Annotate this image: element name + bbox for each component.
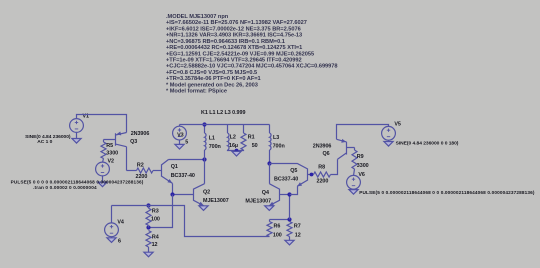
svg-text:R1: R1: [248, 134, 255, 140]
svg-text:V6: V6: [358, 172, 365, 178]
ground under Q2 emitter: [199, 206, 208, 211]
resistor R9: [352, 150, 357, 169]
svg-text:* Model generated on Dec 26, 2: * Model generated on Dec 26, 2003: [166, 82, 258, 88]
svg-text:R6: R6: [274, 224, 281, 230]
junction Q5 base / R8: [310, 173, 314, 177]
ground under V6: [349, 190, 358, 195]
svg-text:3300: 3300: [357, 163, 369, 169]
svg-text:V4: V4: [117, 219, 124, 225]
resistor R2: [137, 168, 154, 173]
wire V5 to ground: [388, 140, 390, 142]
svg-text:MJE13007: MJE13007: [245, 198, 271, 204]
svg-text:SINE(0 4.84 236000): SINE(0 4.84 236000): [25, 134, 71, 140]
wire V3 to ground: [179, 140, 181, 145]
inductor L2: [228, 133, 230, 150]
wire V4 stub: [111, 206, 113, 224]
transistor Q2 MJE13007 (NPN): [194, 184, 205, 208]
transistor Q3 2N3906 (PNP): [104, 131, 127, 146]
junction rail / V3 / L1: [202, 122, 206, 126]
wire Q1 collector to node A: [169, 159, 205, 161]
wire Q5 emitter to node D: [290, 186, 298, 194]
wire bias rail to R6: [149, 206, 270, 237]
svg-text:+IKF=6.6012 ISE=7.00002e-12 NE: +IKF=6.6012 ISE=7.00002e-12 NE=3.375 BR=…: [166, 26, 301, 32]
spice .MODEL MJE13007 text block: [166, 14, 338, 95]
resistor R4: [146, 231, 151, 248]
wire Q3 collector to R2 left: [127, 170, 137, 172]
svg-text:L2: L2: [230, 134, 236, 140]
node A junction: [202, 157, 206, 161]
svg-text:R5: R5: [106, 143, 113, 149]
node C junction: [170, 192, 174, 196]
svg-text:2200: 2200: [317, 178, 329, 184]
junction L2/R1/ground: [235, 149, 239, 153]
svg-text:2N3906: 2N3906: [131, 131, 150, 137]
wire Q4 base to node D: [280, 194, 290, 196]
svg-text:PULSE(5 0 0.000002118644068 0: PULSE(5 0 0.000002118644068 0 0 0.000002…: [359, 190, 535, 195]
svg-text:12: 12: [295, 233, 301, 239]
wire L1 to node A: [204, 150, 206, 160]
wire transformer top rail: [180, 124, 270, 126]
voltage source V1 (SINE AC): [70, 119, 84, 133]
svg-text:AC 1 0: AC 1 0: [37, 139, 52, 145]
svg-text:+FC=0.8 CJS=0 VJS=0.75 MJS=0.5: +FC=0.8 CJS=0 VJS=0.75 MJS=0.5: [166, 70, 257, 76]
wire R6 top lead: [269, 220, 271, 222]
svg-text:R9: R9: [357, 154, 364, 160]
svg-text:5: 5: [185, 139, 188, 145]
wire node C to Q2 base: [173, 194, 194, 196]
svg-text:Q3: Q3: [130, 139, 137, 145]
svg-text:R8: R8: [318, 165, 325, 171]
wire R2 to Q1 base: [153, 170, 162, 172]
wire rail to R1: [243, 125, 245, 134]
svg-text:+EG=1.12591 CJE=2.54221e-09 VJ: +EG=1.12591 CJE=2.54221e-09 VJE=0.99 MJE…: [166, 51, 314, 57]
transistor Q4 MJE13007 (NPN, mirrored): [268, 184, 279, 208]
inductor L1: [205, 133, 207, 150]
wire R4 to ground: [148, 247, 150, 252]
wire rail to V3: [179, 125, 181, 127]
voltage source V2 (PULSE): [96, 162, 110, 176]
wire rail to L1: [204, 125, 206, 134]
resistor R5: [101, 142, 106, 159]
resistor R3: [146, 208, 151, 225]
svg-text:2200: 2200: [136, 174, 148, 180]
svg-text:16µ: 16µ: [229, 143, 238, 149]
svg-text:700n: 700n: [273, 144, 285, 150]
svg-text:100: 100: [151, 216, 160, 222]
ground under R7: [285, 240, 294, 245]
resistor R1: [241, 133, 246, 150]
svg-text:L1: L1: [209, 135, 215, 141]
svg-text:Q5: Q5: [290, 168, 297, 174]
ground under V4: [107, 238, 116, 243]
voltage source V4 (6V): [105, 223, 119, 237]
svg-text:R4: R4: [152, 235, 159, 241]
wire Q3 collector to R2: [126, 147, 128, 171]
svg-text:Q4: Q4: [262, 190, 269, 196]
wire V2 to ground: [102, 176, 104, 183]
wire R6 to node D2: [270, 219, 290, 221]
node D2 junction R6/R7: [287, 217, 291, 221]
ground under V2: [98, 182, 107, 187]
svg-text:+TF=1e-09 XTF=1.76694 VTF=3.29: +TF=1e-09 XTF=1.76694 VTF=3.29645 ITF=0.…: [166, 58, 302, 64]
transistor Q1 BC337-40 (NPN): [162, 160, 174, 185]
ground under V1: [72, 139, 81, 144]
ground under Q4 emitter: [265, 206, 274, 211]
wire R8 to Q6 collector: [331, 159, 338, 174]
wire V1 to ground: [76, 132, 78, 138]
voltage source V3 (5V): [173, 126, 187, 140]
wire R3 to junction: [148, 225, 150, 227]
wire L3 to node B: [269, 150, 271, 164]
svg-text:L3: L3: [273, 135, 279, 141]
svg-text:+CJC=2.58882e-10 VJC=0.747204: +CJC=2.58882e-10 VJC=0.747204 MJC=0.4570…: [166, 64, 338, 70]
svg-text:100: 100: [273, 233, 282, 239]
wire R7 to ground: [289, 237, 291, 241]
wire Q1 emitter down: [172, 183, 174, 194]
junction R3/R4: [146, 225, 150, 229]
svg-text:SINE(0 4.84 236000 0 0 180): SINE(0 4.84 236000 0 0 180): [396, 140, 459, 146]
svg-text:+RE=0.00064432 RC=0.124678 XTB: +RE=0.00064432 RC=0.124678 XTB=0.124275 …: [166, 45, 302, 51]
wire rail corner to L3: [269, 125, 271, 134]
wire Q3 base to R5: [103, 140, 105, 143]
wire Q2 collector to node A: [204, 160, 206, 184]
wire R9 to V6: [354, 169, 355, 176]
transistor Q5 BC337-40 (NPN, mirrored): [296, 163, 313, 188]
svg-text:MJE13007: MJE13007: [203, 198, 229, 204]
svg-text:V5: V5: [394, 122, 401, 128]
resistor R6: [267, 222, 272, 237]
wire Q4 collector to node B: [269, 164, 271, 184]
svg-text:3300: 3300: [106, 151, 118, 157]
svg-text:Q1: Q1: [171, 164, 178, 170]
svg-text:.tran 0 0.00002 0 0.0000004: .tran 0 0.00002 0 0.0000004: [33, 185, 97, 190]
voltage source V5 (SINE 180): [382, 126, 396, 140]
svg-text:+TR=3.35784e-06 PTF=0 KF=0 AF=: +TR=3.35784e-06 PTF=0 KF=0 AF=1: [166, 76, 261, 82]
wire node B to Q5 collector: [270, 163, 298, 165]
voltage source V6 (PULSE): [347, 175, 361, 189]
ground under L2 R1: [232, 151, 241, 156]
wire V1 top to Q3 emitter: [77, 115, 127, 133]
resistor R7: [287, 222, 292, 237]
wire Q6 emitter to V5 rail: [337, 125, 389, 140]
ground under V3: [175, 144, 184, 149]
svg-text:BC337-40: BC337-40: [171, 173, 195, 179]
svg-text:K1 L1 L2 L3 0.999: K1 L1 L2 L3 0.999: [201, 110, 245, 116]
wire junction to R3: [148, 206, 150, 209]
svg-text:V2: V2: [108, 158, 115, 164]
svg-text:700n: 700n: [209, 144, 221, 150]
svg-text:.MODEL MJE13007 npn: .MODEL MJE13007 npn: [166, 14, 229, 20]
wire V4 to R3 top: [112, 205, 149, 207]
junction V4/R3/bias rail: [146, 203, 150, 207]
wire rail to L2: [227, 125, 229, 134]
wire node D2 to node D: [289, 195, 291, 220]
svg-text:* Model format: PSpice: * Model format: PSpice: [166, 89, 227, 95]
svg-text:V3: V3: [177, 133, 184, 139]
wire Q6 base to R9: [354, 148, 356, 151]
wire R5 to V2: [103, 159, 104, 163]
svg-text:PULSE(5 0 0 0 0 0.000002118644: PULSE(5 0 0 0 0 0.000002118644068 0.0000…: [11, 179, 144, 184]
node D junction: [287, 192, 291, 196]
svg-text:+NR=1.1326 VAR=3.4903 IKR=3.36: +NR=1.1326 VAR=3.4903 IKR=3.36691 ISC=4.…: [166, 33, 302, 39]
wire L2 R1 bottom join: [228, 149, 244, 152]
ground under R4: [144, 252, 153, 257]
svg-text:+NC=3.96875 RB=0.964633 IRB=0.: +NC=3.96875 RB=0.964633 IRB=0.1 RBM=0.1: [166, 39, 285, 45]
svg-text:2N3906: 2N3906: [313, 143, 332, 149]
svg-text:+IS=7.66502e-11 BF=25.076 NF=1: +IS=7.66502e-11 BF=25.076 NF=1.13982 VAF…: [166, 20, 307, 26]
svg-text:Q6: Q6: [323, 151, 330, 157]
resistor R8: [314, 172, 331, 177]
svg-text:12: 12: [152, 242, 158, 248]
svg-text:6: 6: [118, 238, 121, 244]
svg-text:R3: R3: [152, 208, 159, 214]
svg-text:R7: R7: [294, 224, 301, 230]
inductor L3: [270, 133, 272, 150]
wire V4 to ground: [111, 236, 113, 237]
ground under V5: [384, 142, 393, 147]
svg-text:BC337-40: BC337-40: [274, 177, 298, 183]
svg-text:50: 50: [252, 143, 258, 149]
svg-text:Q2: Q2: [203, 190, 210, 196]
wire V6 to ground: [353, 188, 355, 191]
svg-text:R2: R2: [137, 162, 144, 168]
wire node C down to R3/R4 junction: [149, 195, 173, 228]
transistor Q6 2N3906 (PNP, mirrored): [337, 139, 355, 159]
node B junction: [267, 161, 271, 165]
